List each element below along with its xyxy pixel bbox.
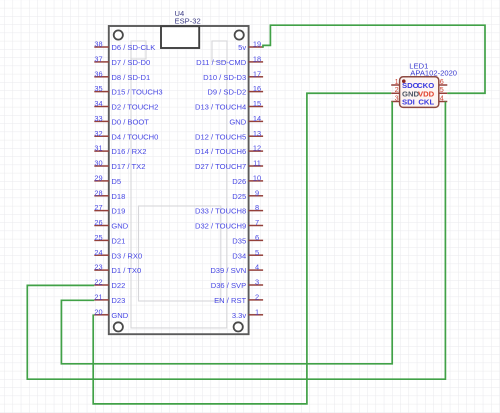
- svg-text:D1 / TX0: D1 / TX0: [111, 266, 141, 275]
- wire net 5V: U4 pin19 (5v) to LED1 pin5 (VDD): [263, 25, 485, 93]
- U4 pin 29 (D5): [94, 174, 121, 187]
- U4 faint PCB outline (left/bottom/right): [131, 58, 227, 328]
- U4 faint connector box right: [212, 41, 227, 62]
- LED1 pin 5 (VDD): [418, 85, 447, 99]
- wire net GND: U4 pin20 (GND) to LED1 pin2 (GND): [93, 93, 391, 404]
- svg-text:D9 / SD-D2: D9 / SD-D2: [207, 88, 246, 97]
- LED1 pin 2 (GND): [391, 85, 419, 99]
- svg-text:32: 32: [94, 129, 102, 138]
- svg-text:25: 25: [94, 233, 102, 242]
- U4 pin 36 (D8 / SD-D1): [94, 69, 150, 82]
- svg-text:30: 30: [94, 159, 102, 168]
- U4 antenna notch box: [161, 26, 199, 48]
- U4 pin 22 (D22): [94, 278, 125, 291]
- U4 pin 32 (D4 / TOUCH0): [94, 129, 158, 142]
- U4 pin 25 (D21): [94, 233, 125, 246]
- U4 pin 3 (D36 / SVP): [211, 278, 263, 291]
- svg-text:22: 22: [94, 278, 102, 287]
- svg-text:D27 / TOUCH7: D27 / TOUCH7: [195, 162, 246, 171]
- U4 pin 15 (D13 / TOUCH4): [195, 99, 263, 112]
- svg-text:GND: GND: [229, 118, 246, 127]
- U4 pin 12 (D14 / TOUCH6): [195, 144, 263, 157]
- svg-text:29: 29: [94, 174, 102, 183]
- U4 pin 21 (D23): [94, 293, 125, 306]
- U4 mounting hole bottom-left: [114, 322, 123, 331]
- U4 pin 23 (D1 / TX0): [94, 263, 141, 276]
- svg-text:GND: GND: [111, 222, 128, 231]
- svg-text:34: 34: [94, 99, 102, 108]
- U4 pin 18 (D11 / SD-CMD): [196, 55, 263, 68]
- U4 pin 2 (EN / RST): [214, 293, 263, 306]
- svg-text:35: 35: [94, 84, 102, 93]
- U4 pin 30 (D17 / TX2): [94, 159, 145, 172]
- svg-text:D17 / TX2: D17 / TX2: [111, 162, 145, 171]
- svg-text:D7 / SD-D0: D7 / SD-D0: [111, 58, 150, 67]
- svg-text:20: 20: [94, 307, 102, 316]
- svg-text:7: 7: [255, 218, 259, 227]
- svg-text:D26: D26: [232, 177, 246, 186]
- svg-text:D32 / TOUCH9: D32 / TOUCH9: [195, 222, 246, 231]
- U4 pin 1 (3.3v): [232, 307, 263, 320]
- U4 pin 9 (D25): [232, 188, 263, 201]
- svg-text:17: 17: [253, 69, 261, 78]
- svg-text:13: 13: [253, 129, 261, 138]
- U4 mounting hole bottom-right: [234, 322, 243, 331]
- svg-text:37: 37: [94, 55, 102, 64]
- svg-text:3: 3: [255, 278, 259, 287]
- refdes U4: [175, 9, 185, 18]
- svg-text:D23: D23: [111, 296, 125, 305]
- svg-text:D5: D5: [111, 177, 121, 186]
- svg-text:D16 / RX2: D16 / RX2: [111, 147, 146, 156]
- svg-text:36: 36: [94, 69, 102, 78]
- LED1 pin 4 (CKL): [418, 93, 447, 106]
- svg-text:6: 6: [255, 233, 259, 242]
- U4 mounting hole top-right: [235, 30, 244, 39]
- LED1 pin 1 (SDO): [391, 77, 418, 90]
- svg-text:5: 5: [255, 248, 259, 257]
- wire net DATA: U4 pin21 (D23) to LED1 pin3 (SDI): [61, 102, 392, 364]
- U4 mounting hole top-left: [114, 30, 123, 39]
- U4 pin 10 (D26): [232, 174, 263, 187]
- svg-text:D12 / TOUCH5: D12 / TOUCH5: [195, 132, 246, 141]
- U4 pin 28 (D18): [94, 188, 125, 201]
- svg-text:D19: D19: [111, 207, 125, 216]
- U4 pin 33 (D0 / BOOT): [94, 114, 149, 127]
- svg-text:D21: D21: [111, 237, 125, 246]
- svg-text:D10 / SD-D3: D10 / SD-D3: [203, 73, 246, 82]
- LED1 pin 6 (CKO): [417, 77, 447, 90]
- U4 pin 8 (D33 / TOUCH8): [195, 203, 263, 216]
- svg-text:9: 9: [255, 188, 259, 197]
- svg-text:14: 14: [253, 114, 261, 123]
- svg-text:19: 19: [253, 40, 261, 49]
- svg-text:APA102-2020: APA102-2020: [410, 68, 457, 77]
- U4 pin 38 (D6 / SD-CLK): [94, 40, 155, 53]
- svg-text:D33 / TOUCH8: D33 / TOUCH8: [195, 207, 246, 216]
- svg-text:CKL: CKL: [418, 98, 434, 107]
- U4 pin 7 (D32 / TOUCH9): [195, 218, 263, 231]
- svg-text:27: 27: [94, 203, 102, 212]
- U4 pin 11 (D27 / TOUCH7): [195, 159, 263, 172]
- U4 pin 20 (GND): [94, 307, 128, 320]
- U4 pin 6 (D35): [232, 233, 263, 246]
- U4 pin 5 (D34): [232, 248, 263, 261]
- svg-text:33: 33: [94, 114, 102, 123]
- svg-text:D4 / TOUCH0: D4 / TOUCH0: [111, 132, 158, 141]
- U4 pin 26 (GND): [94, 218, 128, 231]
- svg-text:3.3v: 3.3v: [232, 311, 247, 320]
- U4 pin 35 (D15 / TOUCH3): [94, 84, 162, 97]
- svg-text:D6 / SD-CLK: D6 / SD-CLK: [111, 43, 155, 52]
- LED1 pin-1 dot: [402, 79, 406, 83]
- U4 faint connector box left: [131, 41, 146, 59]
- svg-text:D11 / SD-CMD: D11 / SD-CMD: [196, 58, 247, 67]
- U4 pin 34 (D2 / TOUCH2): [94, 99, 158, 112]
- svg-text:D39 / SVN: D39 / SVN: [210, 266, 246, 275]
- svg-text:D36 / SVP: D36 / SVP: [211, 281, 246, 290]
- svg-text:12: 12: [253, 144, 261, 153]
- svg-text:D2 / TOUCH2: D2 / TOUCH2: [111, 103, 158, 112]
- svg-text:D22: D22: [111, 281, 125, 290]
- svg-text:ESP-32: ESP-32: [175, 17, 201, 26]
- U4 pin 24 (D3 / RX0): [94, 248, 142, 261]
- svg-text:D13 / TOUCH4: D13 / TOUCH4: [195, 103, 246, 112]
- svg-text:18: 18: [253, 55, 261, 64]
- svg-text:28: 28: [94, 188, 102, 197]
- svg-text:10: 10: [253, 174, 261, 183]
- svg-text:D35: D35: [232, 237, 246, 246]
- refdes LED1: [409, 61, 428, 70]
- U4 pin 27 (D19): [94, 203, 125, 216]
- LED1 pin 3 (SDI): [391, 93, 415, 106]
- svg-text:D3 / RX0: D3 / RX0: [111, 251, 142, 260]
- U4 faint shield can rectangle: [139, 206, 221, 301]
- svg-text:23: 23: [94, 263, 102, 272]
- svg-text:21: 21: [94, 293, 102, 302]
- svg-text:38: 38: [94, 40, 102, 49]
- U4 pin 13 (D12 / TOUCH5): [195, 129, 263, 142]
- svg-text:D8 / SD-D1: D8 / SD-D1: [111, 73, 150, 82]
- wire net CLOCK: U4 pin22 (D22) to LED1 pin4 (CKL): [27, 102, 445, 380]
- LED U1: LED1 APA102-2020 body: [400, 77, 439, 108]
- svg-text:5v: 5v: [238, 43, 246, 52]
- U4 pin 4 (D39 / SVN): [210, 263, 263, 276]
- svg-text:EN / RST: EN / RST: [214, 296, 246, 305]
- svg-text:D18: D18: [111, 192, 125, 201]
- value APA102-2020: [410, 68, 457, 77]
- svg-text:16: 16: [253, 84, 261, 93]
- svg-text:D14 / TOUCH6: D14 / TOUCH6: [195, 147, 246, 156]
- svg-text:26: 26: [94, 218, 102, 227]
- svg-text:31: 31: [94, 144, 102, 153]
- svg-text:D25: D25: [232, 192, 246, 201]
- U4 pin 16 (D9 / SD-D2): [207, 84, 263, 97]
- svg-text:1: 1: [255, 307, 259, 316]
- svg-text:D0 / BOOT: D0 / BOOT: [111, 118, 149, 127]
- svg-text:2: 2: [255, 293, 259, 302]
- U4 pin 17 (D10 / SD-D3): [203, 69, 263, 82]
- U4 pin 14 (GND): [229, 114, 263, 127]
- svg-text:SDI: SDI: [402, 98, 415, 107]
- svg-text:8: 8: [255, 203, 259, 212]
- U4 pin 37 (D7 / SD-D0): [94, 55, 150, 68]
- IC U4 ESP-32 module body outline: [109, 26, 249, 334]
- svg-text:D15 / TOUCH3: D15 / TOUCH3: [111, 88, 162, 97]
- U4 pin 19 (5v): [238, 40, 263, 53]
- svg-text:24: 24: [94, 248, 102, 257]
- svg-text:4: 4: [255, 263, 259, 272]
- U4 pin 31 (D16 / RX2): [94, 144, 146, 157]
- svg-text:D34: D34: [232, 251, 246, 260]
- svg-text:11: 11: [253, 159, 261, 168]
- svg-text:15: 15: [253, 99, 261, 108]
- svg-text:GND: GND: [111, 311, 128, 320]
- svg-text:3: 3: [395, 93, 399, 102]
- value ESP-32: [175, 17, 201, 26]
- svg-text:4: 4: [440, 93, 444, 102]
